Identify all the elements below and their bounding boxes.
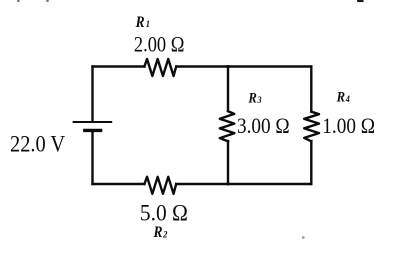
- wire R4 branch upper (top-right corner to R4): [310, 67, 312, 112]
- svg-text:22.0 V: 22.0 V: [10, 130, 65, 157]
- svg-text:5.0 Ω: 5.0 Ω: [140, 200, 188, 226]
- wire bottom-right segment (node of R3 to bottom-right corner): [228, 183, 311, 185]
- resistor R1: [144, 59, 176, 76]
- battery long (+) plate: [74, 121, 112, 123]
- svg-text:R2: R2: [153, 224, 168, 241]
- svg-text:R1: R1: [135, 14, 150, 31]
- wire top-left segment: [93, 65, 145, 67]
- wire top-right segment (node of R3 to top-right corner): [228, 65, 311, 67]
- svg-text:R4: R4: [336, 89, 351, 105]
- resistor R4: [304, 112, 319, 142]
- wire top-middle segment (R1 to node of R3): [176, 65, 228, 67]
- wire bottom-left segment: [93, 183, 145, 185]
- battery short thick (-) plate: [85, 129, 101, 132]
- svg-text:3.00 Ω: 3.00 Ω: [237, 112, 290, 138]
- wire left branch lower (battery - plate to bottom-left corner): [91, 132, 93, 185]
- wire left branch upper (top-left corner to battery + plate): [91, 67, 93, 122]
- svg-text:R3: R3: [247, 90, 262, 106]
- wire R3 branch lower (R3 to bottom node): [227, 141, 229, 184]
- wire bottom-middle segment (R2 to node of R3): [176, 183, 228, 185]
- resistor R3: [220, 111, 235, 141]
- resistor R2: [144, 177, 176, 194]
- svg-text:2.00 Ω: 2.00 Ω: [134, 33, 185, 57]
- battery cell (22.0 V source): [74, 122, 112, 130]
- wire R3 branch upper (top node to R3): [227, 67, 229, 112]
- svg-text:1.00 Ω: 1.00 Ω: [322, 112, 375, 138]
- wire R4 branch lower (R4 to bottom-right corner): [310, 141, 312, 184]
